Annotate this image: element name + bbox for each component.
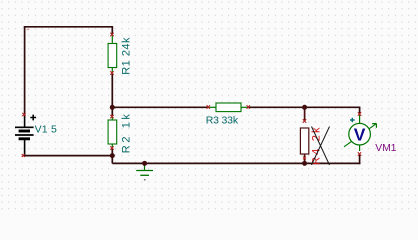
wire R1 top lead bbox=[111, 27, 113, 34]
pin mark battery top bbox=[22, 113, 25, 116]
svg-text:R1 24k: R1 24k bbox=[120, 37, 132, 75]
voltmeter plus sign bbox=[350, 118, 355, 123]
wire voltmeter bottom drop bbox=[359, 155, 361, 165]
pin mark voltmeter bottom bbox=[358, 152, 361, 155]
node junction dot R2 bottom bbox=[110, 153, 115, 158]
battery V1 bbox=[15, 114, 34, 156]
wire R2 bottom lead bbox=[111, 149, 113, 156]
wire mid rail left segment bbox=[112, 106, 208, 108]
wire voltmeter top drop bbox=[359, 107, 361, 113]
pin mark R3 left bbox=[207, 105, 210, 108]
node junction dot R4 bottom bbox=[302, 161, 307, 166]
pin mark R1 bottom bbox=[110, 71, 113, 74]
svg-text:VM1: VM1 bbox=[375, 142, 396, 154]
stray pin mark near top-left corner bbox=[27, 29, 30, 30]
wire R4 top lead bbox=[304, 107, 306, 120]
node junction dot mid rail bbox=[110, 105, 115, 110]
pin mark R2 bottom bbox=[110, 146, 113, 149]
pin mark R4 bottom bbox=[303, 157, 306, 160]
pin mark R4 top bbox=[303, 119, 306, 122]
wire mid rail right segment bbox=[248, 106, 360, 108]
resistor R4 (faulty) bbox=[300, 128, 308, 154]
fault cross X over R4 bbox=[312, 127, 330, 166]
resistor R2 bbox=[108, 117, 117, 148]
node junction dot R4 top bbox=[302, 105, 307, 110]
voltmeter VM1 bbox=[344, 115, 376, 152]
wire R4 bottom lead bbox=[304, 154, 306, 163]
pin mark R1 top bbox=[110, 33, 113, 36]
pin mark voltmeter top bbox=[358, 112, 361, 115]
svg-text:V: V bbox=[354, 124, 366, 144]
node junction dot ground bbox=[142, 161, 147, 166]
svg-text:R2 1k: R2 1k bbox=[120, 111, 132, 153]
wire R1 bottom to mid junction bbox=[111, 74, 113, 108]
battery plus sign bbox=[30, 115, 36, 121]
wire bottom-left rail bbox=[24, 155, 113, 157]
wire R2 top lead bbox=[111, 107, 113, 116]
pin mark R2 top bbox=[110, 115, 113, 118]
wire bottom rail bbox=[112, 162, 360, 164]
ground bbox=[136, 163, 153, 180]
svg-text:V1 5: V1 5 bbox=[35, 124, 57, 136]
svg-text:R3 33k: R3 33k bbox=[206, 114, 239, 126]
resistor R1 bbox=[108, 35, 117, 73]
wire left rail bbox=[24, 26, 26, 114]
pin mark R3 right bbox=[247, 105, 250, 108]
wire step down at R2 bottom bbox=[111, 156, 113, 164]
wire top rail bbox=[24, 26, 113, 28]
resistor R3 bbox=[209, 103, 249, 112]
pin mark battery bottom bbox=[22, 154, 25, 157]
